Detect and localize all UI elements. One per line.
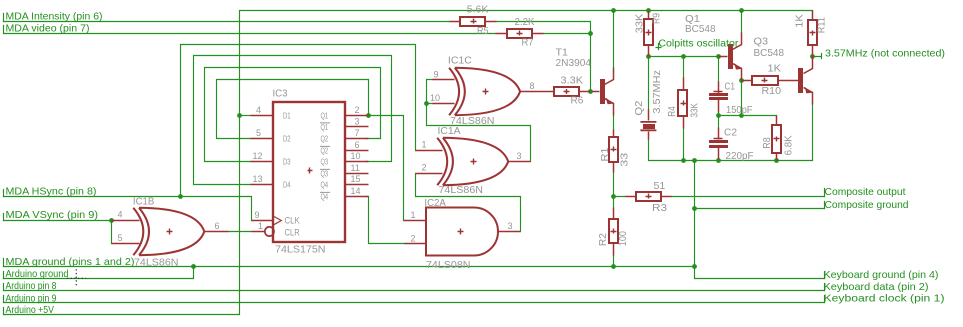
svg-text:2.2K: 2.2K [515,17,535,28]
svg-text:Keyboard clock (pin 1): Keyboard clock (pin 1) [824,293,945,304]
svg-text:BC548: BC548 [685,24,716,35]
wire 3.57MHz not connected stub [813,54,822,59]
svg-text:D2: D2 [283,134,291,143]
wire composite output from R3 [672,196,825,198]
svg-text:IC1A: IC1A [438,126,461,137]
node MDA ground/keyboard ground [692,264,697,269]
svg-text:74LS86N: 74LS86N [134,257,179,268]
svg-text:9: 9 [434,70,439,80]
svg-text:Arduino +5V: Arduino +5V [6,305,55,316]
svg-text:3.57MHz (not connected): 3.57MHz (not connected) [825,49,945,60]
node T1 base [588,89,593,94]
wire MDA VSync to IC1B pins 4,5 [4,221,112,244]
wire T1 emitter to R1 [613,116,615,130]
svg-text:11: 11 [351,163,360,173]
svg-text:Colpitts oscillator: Colpitts oscillator [658,39,739,50]
svg-text:2N3904: 2N3904 [556,58,592,69]
svg-text:Keyboard data (pin 2): Keyboard data (pin 2) [824,282,929,293]
svg-text:MDA Intensity (pin 6): MDA Intensity (pin 6) [6,12,103,23]
wire IC2A output to IC1A pin2 [416,174,521,232]
wire Q1 collector to top rail [741,11,743,33]
node D1/+5V [237,113,242,118]
svg-text:C2: C2 [724,127,737,138]
wire R1 bottom to node R3/R2 [614,173,626,267]
wire Q4bar net: IC3 pin14 to IC2A pin2 [366,197,405,244]
wire C2 bottom [718,160,720,161]
resistor R11 1K [808,11,817,57]
svg-text:74LS86N: 74LS86N [439,185,484,196]
svg-text:D4: D4 [283,180,291,189]
svg-text:14: 14 [351,186,361,196]
wire C1 top [718,57,720,82]
svg-text:6: 6 [215,221,220,231]
node HSync/loop [178,194,183,199]
svg-text:R2: R2 [598,233,609,246]
svg-text:1: 1 [422,140,427,150]
svg-text:Arduino pin 8: Arduino pin 8 [6,281,57,292]
wire composite ground / keyboard ground vertical [695,161,825,279]
svg-text:Keyboard ground (pin 4): Keyboard ground (pin 4) [824,270,939,281]
svg-text:33K: 33K [634,14,645,34]
svg-text:C1: C1 [725,82,736,93]
wire R9 to crystal top [648,57,650,110]
node Q1 pin2 [366,113,371,118]
svg-text:Q2: Q2 [321,134,329,143]
resistor R4 33K [678,78,687,129]
svg-text:R4: R4 [667,106,678,117]
op-amp gate IC2A 74LS08N and [404,208,521,256]
svg-text:1K: 1K [768,64,782,75]
node Q1 emitter/R10 [739,78,744,83]
svg-text:R9: R9 [652,13,663,24]
svg-text:R1: R1 [600,147,611,161]
svg-text:4: 4 [256,105,261,115]
svg-text:3: 3 [508,221,513,231]
svg-text:R5: R5 [477,26,489,37]
node rail1/Q1 collector [739,8,744,13]
svg-text:Q1: Q1 [321,123,329,132]
svg-text:Q2: Q2 [321,146,329,155]
svg-text:10: 10 [430,93,440,103]
svg-text:Arduino ground: Arduino ground [6,269,69,280]
transistor Q1 BC548 [719,33,742,81]
svg-text:R10: R10 [762,86,782,97]
svg-text:Q3: Q3 [321,157,329,166]
svg-text:8: 8 [530,81,535,91]
svg-text:33: 33 [620,152,631,166]
svg-text:BC548: BC548 [754,48,785,59]
label ticks left [3,14,5,315]
svg-text:CLR: CLR [285,227,301,237]
svg-text:6.8K: 6.8K [784,135,795,155]
svg-text:1K: 1K [794,14,805,28]
label tick Colpitts [656,44,661,50]
resistor R5 5.6K [450,17,497,26]
svg-text:Composite output: Composite output [825,187,906,198]
svg-text:R7: R7 [522,38,534,49]
op IC3 74LS175N box [251,102,369,242]
wire IC1B output to IC3 CLR [229,231,252,233]
svg-text:MDA HSync (pin 8): MDA HSync (pin 8) [6,186,97,197]
transistor Q3 BC548 [798,57,813,105]
svg-text:Q3: Q3 [754,36,769,47]
label ticks right [824,189,826,303]
node R4 bottom rail3 [681,158,686,163]
wire +5V to IC3 D1 [240,115,251,117]
svg-text:2: 2 [411,233,416,243]
svg-text:6: 6 [355,140,360,150]
svg-text:IC1B: IC1B [133,197,155,208]
svg-text:R3: R3 [652,203,667,214]
wire Arduino pin 9 / keyboard clock [4,302,825,304]
node R11/Q3 collector/3.57MHz [810,54,815,59]
node MDA ground/R2 [611,264,616,269]
wire +5V rail: Arduino +5V up left side and top rail to R11 [4,11,813,315]
node rail1/T1 collector [611,8,616,13]
op-amp gate IC1A 74LS86N xor [416,138,531,185]
wire C1 bottom to node and to R8 [719,113,777,116]
resistor R7 2.2K [496,29,544,38]
svg-text:Q4: Q4 [321,180,329,189]
svg-text:R6: R6 [571,96,584,107]
wire MDA HSync to CLK corner [4,197,252,221]
capacitor C1 150pF [709,82,728,113]
resistor R6 3.3K [554,87,591,96]
svg-text:Q1: Q1 [321,111,329,120]
wire T1 collector to top rail [613,11,615,68]
svg-text:MDA video (pin 7): MDA video (pin 7) [6,24,90,35]
node R8 bottom rail3 [774,158,779,163]
svg-text:Q3: Q3 [321,169,329,178]
wire Arduino pin 8 / keyboard data [4,290,825,292]
node C1/C2 wire [716,113,721,118]
svg-text:9: 9 [255,210,260,220]
wire R5/R7 outputs to T1 base node [497,22,591,92]
svg-text:MDA VSync (pin 9): MDA VSync (pin 9) [6,210,98,221]
svg-text:5: 5 [256,128,261,138]
wire Q2 net: IC3 pin7 loop to D3 [205,68,381,162]
node composite ground [692,206,697,211]
op-amp gate IC1B 74LS86N xor [112,208,229,255]
wire C2 top [718,116,720,128]
wire Q3 net: IC3 pin10 loop to D4 [194,56,392,185]
resistor R2 100 [609,208,618,256]
svg-text:Composite ground: Composite ground [825,200,909,211]
svg-text:220pF: 220pF [726,151,754,162]
svg-text:74LS08N: 74LS08N [426,260,471,271]
svg-text:51: 51 [654,181,666,192]
wire MDA video (pin 7) to R7 [4,33,496,35]
svg-text:Q4: Q4 [321,192,329,201]
svg-text:D3: D3 [283,157,291,166]
svg-text:100: 100 [618,231,629,246]
svg-text:4: 4 [118,209,123,219]
svg-text:IC1C: IC1C [448,56,473,67]
wire Q1 net: IC3 pin2 to IC2A pin1 and loop to D2 [217,80,404,221]
resistor R3 51 [626,192,672,201]
svg-text:3: 3 [355,117,360,127]
wire R4 top [683,57,685,78]
wire loop HSync to IC1A pin1 [181,45,416,197]
wire Arduino ground [4,267,194,279]
text cursor artifact [67,269,86,287]
svg-text:D1: D1 [283,111,291,120]
node C1/Q1 base [716,54,721,59]
svg-text:R8: R8 [762,137,773,149]
node R7 out [588,31,593,36]
svg-text:3.57MHz: 3.57MHz [652,70,663,114]
svg-text:33K: 33K [690,103,701,118]
svg-text:IC2A: IC2A [424,198,446,209]
wire crystal bottom to bottom rail3 and rail3 to Q3 emitter [649,105,813,161]
svg-text:13: 13 [253,174,263,184]
wire Q1 emitter node to 115 wire [741,81,743,116]
svg-text:1: 1 [258,221,263,231]
node emitter wire [739,113,744,118]
svg-text:3.3K: 3.3K [561,76,584,87]
wire IC1C pins 9,10 tie to IC1A output [427,80,531,162]
svg-text:7: 7 [355,128,360,138]
capacitor C2 220pF [709,128,728,160]
resistor R1 33 [609,130,618,173]
svg-text:150pF: 150pF [726,105,753,116]
svg-text:3: 3 [517,151,522,161]
op-amp gate IC1C 74LS86N xor [433,68,555,115]
svg-text:12: 12 [253,151,263,161]
resistor R9 33K [644,11,653,57]
node rail1/R9 [646,8,651,13]
svg-text:IC3: IC3 [273,88,288,99]
svg-text:1: 1 [411,210,416,220]
svg-text:2: 2 [422,163,427,173]
svg-text:10: 10 [351,151,361,161]
node C2 bottom rail3 [716,158,721,163]
node R9/crystal/rail2 [646,54,651,59]
node VSync/IC1B [109,218,114,223]
crystal Q2 3.57MHz [640,110,656,140]
svg-text:R11: R11 [817,17,828,33]
svg-text:74LS175N: 74LS175N [275,244,326,255]
node comp-ground vertical rail3 [692,158,697,163]
transistor T1 2N3904 [593,68,614,116]
wire MDA Intensity (pin 6) to R5 [4,21,450,23]
node IC1C pin10 [424,101,429,106]
resistor R10 1K [742,76,799,85]
svg-text:MDA ground (pins 1 and 2): MDA ground (pins 1 and 2) [6,257,135,268]
node MDA ground/Arduino ground [191,264,196,269]
wire oscillator top rail2 [649,56,719,58]
svg-text:5: 5 [118,233,123,243]
svg-text:Arduino pin 9: Arduino pin 9 [6,293,57,304]
svg-text:Q2: Q2 [634,100,645,115]
wire R4 bottom [683,129,685,161]
wire MDA ground [4,266,695,268]
svg-text:CLK: CLK [285,215,300,225]
resistor R8 6.8K [772,116,781,161]
svg-text:5.6K: 5.6K [467,5,489,16]
svg-text:15: 15 [351,174,361,184]
node R1/R3/R2 [611,194,616,199]
svg-text:2: 2 [355,105,360,115]
node R4 top [681,54,686,59]
